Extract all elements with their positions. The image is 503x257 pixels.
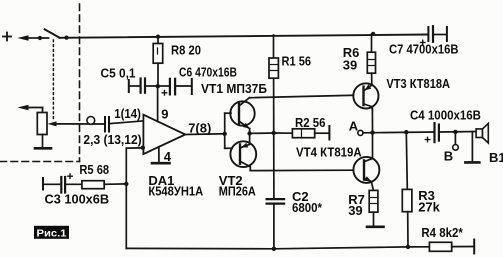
node A terminal circle [358, 130, 363, 135]
svg-text:VT4 КТ819А: VT4 КТ819А [296, 145, 362, 160]
svg-text:R1 56: R1 56 [282, 54, 312, 69]
junction [38, 36, 42, 40]
potentiometer top terminal arrow [18, 105, 43, 113]
svg-text:МП26А: МП26А [219, 184, 257, 199]
junction R2 left [272, 131, 276, 135]
ground (speaker) [465, 161, 479, 164]
ground (potentiometer) [35, 147, 51, 150]
svg-text:6800*: 6800* [292, 200, 323, 215]
transistor VT3 circle [353, 83, 378, 108]
wire feedback to column [126, 148, 143, 249]
svg-text:39: 39 [343, 58, 357, 73]
plus mark C4 [425, 137, 429, 141]
resistor R3 [402, 132, 412, 247]
wire emitters to R2 node [250, 132, 274, 134]
speaker bottom lead [471, 132, 473, 162]
svg-text:1(14): 1(14) [114, 106, 141, 121]
wire C2 bottom to rail [273, 205, 275, 249]
potentiometer wiper arrow [48, 121, 57, 126]
svg-text:R2 56: R2 56 [295, 115, 326, 130]
svg-text:C4 1000x16В: C4 1000x16В [410, 108, 481, 123]
ground (R7) [367, 226, 384, 229]
wire C4 right to speaker [440, 131, 476, 134]
svg-text:VT3 КТ818А: VT3 КТ818А [386, 76, 450, 91]
wire wiper to C1 [55, 123, 104, 125]
transistor VT2 emitter with arrow [241, 134, 250, 148]
svg-text:В1: В1 [489, 150, 503, 165]
transistor VT1 base bar [238, 104, 240, 124]
wire bases column [224, 113, 226, 148]
transistor VT3 base bar [362, 87, 364, 106]
svg-text:R5 68: R5 68 [79, 162, 109, 177]
wire node A line [363, 131, 433, 134]
capacitor C3 input [43, 177, 82, 193]
svg-text:К548УН1А: К548УН1А [148, 184, 203, 199]
svg-text:R8 20: R8 20 [171, 43, 201, 58]
resistor R7 [369, 190, 378, 226]
junction R5 node [124, 182, 128, 186]
resistor R6 [367, 34, 375, 85]
potentiometer body [37, 113, 47, 135]
plus mark C7 [421, 40, 425, 44]
transistor VT4 emitter with arrow [364, 176, 373, 190]
transistor VT1 collector [240, 98, 250, 106]
junction VT3 VT4 column [370, 130, 374, 134]
junction C2 bottom [272, 247, 276, 251]
input arrow left [18, 35, 41, 41]
svg-text:Рис.1: Рис.1 [37, 227, 67, 239]
junction rail R6 [371, 32, 375, 36]
svg-text:C6 470x16В: C6 470x16В [179, 65, 237, 80]
op-amp DA1 triangle [143, 115, 185, 154]
junction rail R8 [156, 35, 160, 39]
junction R3 bottom [406, 245, 410, 249]
resistor R5 [82, 181, 126, 189]
svg-text:2,3 (13,12): 2,3 (13,12) [83, 132, 141, 147]
wire VT2 base stub [225, 147, 232, 149]
connector pin circle [87, 117, 95, 125]
wire R1 bottom to C2 column [273, 78, 275, 198]
svg-text:VT1 МП37Б: VT1 МП37Б [201, 81, 267, 96]
junction [64, 36, 68, 40]
wire VT1 base stub [225, 112, 231, 114]
switch linkage dotted line [52, 40, 54, 121]
junction R3 top [404, 130, 408, 134]
capacitor C6 [158, 79, 192, 95]
resistor R8 [153, 37, 163, 87]
svg-text:В: В [444, 149, 453, 164]
wire pin 9 [157, 86, 159, 121]
transistor VT1 emitter with arrow [240, 122, 250, 134]
power plus sign [3, 33, 11, 41]
node B terminal [453, 132, 459, 150]
speaker B1 [476, 123, 488, 143]
switch SA1 blade [45, 29, 60, 37]
figure caption Ris.1 [34, 226, 69, 240]
capacitor C4 [435, 123, 439, 142]
transistor VT3 collector [364, 104, 372, 110]
node: inverting input junction [141, 146, 145, 150]
wire VT1 collector to VT3 base [249, 95, 353, 97]
transistor VT2 circle [230, 141, 256, 167]
junction emitters [247, 131, 251, 135]
transistor VT4 collector [365, 133, 373, 162]
svg-text:C7 4700x16В: C7 4700x16В [389, 42, 459, 57]
ground (op-amp pin 4) [152, 162, 170, 165]
svg-text:27k: 27k [418, 200, 440, 215]
junction C5 C6 pin9 [156, 84, 160, 88]
svg-text:C5 0,1: C5 0,1 [101, 66, 136, 81]
capacitor C1 plates [105, 117, 109, 132]
resistor R4 [429, 240, 474, 254]
wire +supply top rail [60, 35, 428, 38]
wire VT3 collector to node A [371, 107, 373, 133]
wire op-amp output [185, 133, 224, 136]
transistor VT3 emitter with arrow [365, 84, 372, 90]
wire bottom rail [126, 247, 429, 249]
svg-text:R4 8k2*: R4 8k2* [421, 225, 463, 240]
transistor VT4 base bar [363, 160, 365, 179]
wire [40, 37, 49, 39]
svg-text:9: 9 [161, 107, 168, 122]
shield dashed boundary [0, 4, 80, 162]
capacitor C5 [129, 79, 158, 93]
potentiometer bottom lead [42, 135, 44, 148]
svg-text:A: A [349, 119, 359, 134]
plus mark C6 [162, 91, 166, 95]
svg-text:C3 100x6В: C3 100x6В [45, 192, 110, 207]
svg-text:4: 4 [164, 149, 172, 164]
capacitor C7 [428, 26, 447, 42]
junction bases [223, 132, 227, 136]
svg-text:7(8): 7(8) [188, 120, 211, 135]
wire C1 to op-amp input 1(14) [110, 121, 143, 124]
svg-text:39: 39 [348, 203, 362, 218]
junction node B [453, 130, 457, 134]
wire pin 4 [158, 147, 160, 163]
transistor VT2 base bar [239, 144, 241, 163]
resistor R1 [269, 35, 278, 78]
resistor R2 [275, 126, 329, 140]
transistor VT2 collector [241, 162, 251, 171]
transistor VT4 circle [353, 157, 379, 183]
plus mark C3 [68, 174, 72, 178]
transistor VT1 circle [230, 101, 254, 125]
wire VT2 collector to VT4 base [250, 169, 353, 171]
capacitor C2 plates [267, 199, 285, 204]
